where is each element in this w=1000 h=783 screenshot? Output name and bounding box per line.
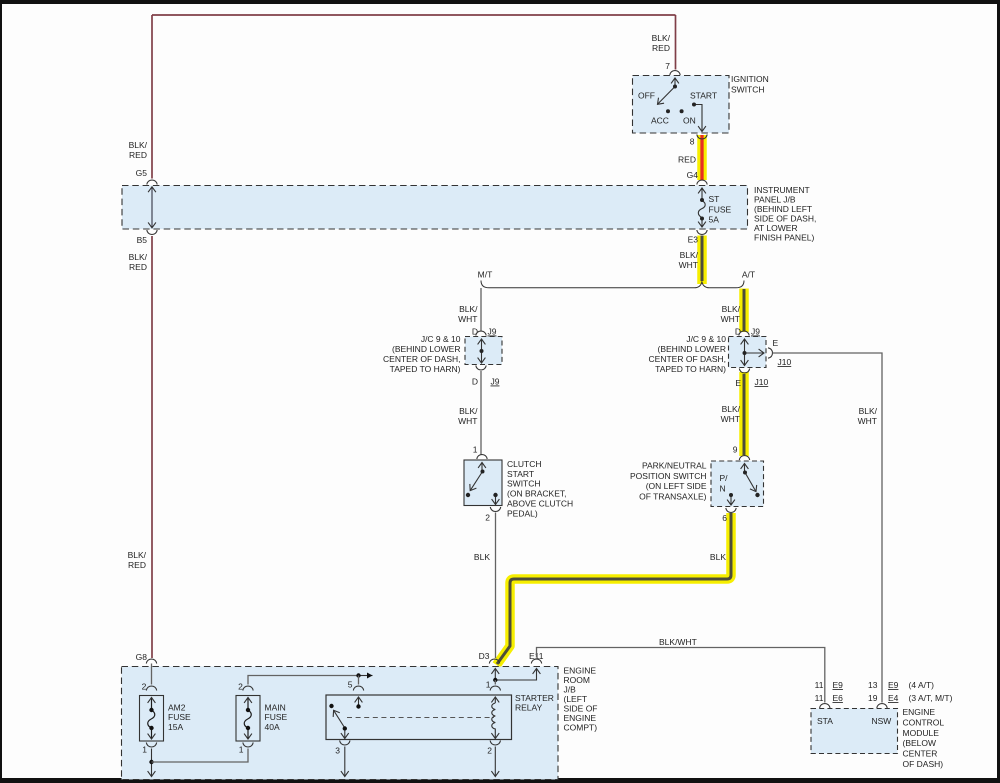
svg-text:WHT: WHT bbox=[458, 314, 477, 324]
svg-text:RELAY: RELAY bbox=[515, 703, 543, 713]
connector pin 3 arc bbox=[340, 741, 350, 746]
svg-text:40A: 40A bbox=[265, 722, 280, 732]
connector D arc (left J/C bottom) bbox=[476, 366, 486, 371]
svg-text:E9: E9 bbox=[888, 680, 899, 690]
svg-text:(BEHIND LEFT: (BEHIND LEFT bbox=[754, 204, 812, 214]
right J/C internal wire with arrows bbox=[745, 339, 765, 366]
wire BLK/WHT (E11 to STA) bbox=[537, 648, 825, 703]
wire junction down to relay pin 1 bbox=[494, 680, 496, 685]
wire BLK/WHT (left J/C to clutch switch) bbox=[480, 371, 482, 455]
starter relay box bbox=[326, 695, 512, 740]
connector relay pin 1 arc bbox=[490, 686, 500, 691]
P/N switch input arrow bbox=[744, 464, 746, 472]
svg-text:BLK/WHT: BLK/WHT bbox=[659, 637, 697, 647]
M/T - A/T option brace bbox=[481, 281, 744, 288]
ignition switch ACC contact dot bbox=[666, 109, 670, 113]
svg-text:J/B: J/B bbox=[564, 685, 577, 695]
svg-text:(LEFT: (LEFT bbox=[564, 694, 588, 704]
ignition switch ON contact dot bbox=[680, 109, 684, 113]
svg-text:INSTRUMENT: INSTRUMENT bbox=[754, 185, 810, 195]
frame bbox=[0, 0, 1000, 4]
connector pin 2 arc bbox=[490, 507, 500, 512]
svg-text:2: 2 bbox=[485, 513, 490, 523]
svg-text:5A: 5A bbox=[709, 215, 720, 225]
connector G8 arc bbox=[146, 659, 156, 664]
svg-text:(ON BRACKET,: (ON BRACKET, bbox=[507, 489, 567, 499]
svg-text:J9: J9 bbox=[751, 327, 760, 337]
fuse MAIN dots bbox=[246, 708, 250, 712]
svg-text:BLK/: BLK/ bbox=[459, 406, 478, 416]
wire junction to MAIN pin 1 bbox=[152, 749, 249, 763]
svg-text:BLK/: BLK/ bbox=[459, 304, 478, 314]
svg-text:(BELOW: (BELOW bbox=[903, 738, 937, 748]
junction dot AM2/MAIN bbox=[149, 760, 153, 764]
svg-text:ACC: ACC bbox=[651, 116, 669, 126]
connector MAIN pin 2 arc bbox=[243, 686, 253, 691]
connector pin 8 arc bbox=[697, 135, 707, 140]
svg-text:D3: D3 bbox=[479, 651, 490, 661]
connector AM2 pin 1 arc bbox=[146, 743, 156, 748]
connector pin 1 arc bbox=[477, 455, 487, 460]
svg-text:AT LOWER: AT LOWER bbox=[754, 223, 798, 233]
relay fixed contact dot bbox=[356, 704, 360, 708]
right J/C junction dot bbox=[743, 351, 747, 355]
svg-text:OFF: OFF bbox=[638, 91, 655, 101]
svg-text:D: D bbox=[472, 377, 478, 387]
svg-text:ST: ST bbox=[709, 194, 720, 204]
svg-text:1: 1 bbox=[239, 745, 244, 755]
svg-text:E: E bbox=[735, 378, 741, 388]
svg-text:(BEHIND LOWER: (BEHIND LOWER bbox=[392, 344, 460, 354]
connector pin 9 arc bbox=[739, 456, 749, 461]
clutch switch output arrow bbox=[495, 497, 497, 505]
svg-text:PEDAL): PEDAL) bbox=[507, 508, 538, 518]
svg-text:8: 8 bbox=[690, 137, 695, 147]
svg-text:J/C 9 & 10: J/C 9 & 10 bbox=[421, 334, 461, 344]
svg-text:WHT: WHT bbox=[458, 416, 477, 426]
svg-text:3: 3 bbox=[335, 746, 340, 756]
svg-text:ENGINE: ENGINE bbox=[564, 666, 597, 676]
svg-text:(ON LEFT SIDE: (ON LEFT SIDE bbox=[646, 481, 707, 491]
svg-text:ON: ON bbox=[683, 116, 696, 126]
wire BLK/WHT A/T branch highlighted (brace to right J/C) bbox=[739, 289, 749, 333]
svg-text:E4: E4 bbox=[888, 693, 899, 703]
connector G4 arc bbox=[697, 180, 707, 185]
connector pin 6 arc bbox=[726, 508, 736, 513]
svg-text:2: 2 bbox=[487, 746, 492, 756]
svg-text:D: D bbox=[735, 327, 741, 337]
svg-text:FUSE: FUSE bbox=[709, 204, 732, 214]
relay contact input arrow (pin 5) bbox=[358, 697, 360, 706]
svg-text:BLK/: BLK/ bbox=[128, 550, 147, 560]
J/C 9 & 10 left box bbox=[465, 337, 502, 365]
svg-text:13: 13 bbox=[868, 680, 878, 690]
svg-text:WHT: WHT bbox=[679, 260, 698, 270]
wire BLK/WHT highlighted (E3 to brace) bbox=[697, 236, 707, 285]
ignition switch box bbox=[633, 76, 730, 134]
wire G8 into AM2 fuse bbox=[151, 664, 153, 685]
relay pin 3 output arrow bbox=[344, 730, 346, 739]
svg-text:RED: RED bbox=[129, 150, 147, 160]
svg-text:G5: G5 bbox=[136, 168, 148, 178]
connector AM2 pin 2 arc bbox=[146, 686, 156, 691]
connector G5 arc bbox=[147, 180, 157, 185]
wire BLK/WHT M/T branch (brace to J/C) bbox=[480, 288, 482, 332]
wire BLK/RED right vertical to ignition pin 7 bbox=[675, 15, 677, 70]
wire RED highlighted (ignition to G4) bbox=[697, 135, 707, 180]
svg-text:(4 A/T): (4 A/T) bbox=[909, 680, 935, 690]
svg-text:B5: B5 bbox=[137, 235, 148, 245]
svg-text:E9: E9 bbox=[833, 680, 844, 690]
svg-text:SIDE OF: SIDE OF bbox=[564, 704, 598, 714]
svg-text:NSW: NSW bbox=[872, 716, 892, 726]
svg-text:STA: STA bbox=[817, 716, 833, 726]
wire pin 2 down bbox=[494, 747, 496, 777]
clutch start switch box bbox=[464, 460, 502, 506]
svg-text:1: 1 bbox=[142, 745, 147, 755]
relay pin 1 junction wire from D3/E11 bbox=[494, 669, 496, 681]
engine room J/B box bbox=[122, 667, 559, 780]
svg-text:CENTER OF DASH,: CENTER OF DASH, bbox=[383, 354, 460, 364]
ignition switch pivot dot bbox=[673, 85, 677, 89]
P/N switch output arrow bbox=[730, 497, 732, 506]
svg-text:STARTER: STARTER bbox=[515, 693, 554, 703]
svg-text:M/T: M/T bbox=[478, 270, 493, 280]
svg-text:WHT: WHT bbox=[721, 414, 740, 424]
svg-text:CLUTCH: CLUTCH bbox=[507, 459, 541, 469]
clutch switch arm bbox=[470, 472, 482, 491]
svg-text:BLK/: BLK/ bbox=[680, 250, 699, 260]
svg-text:BLK/: BLK/ bbox=[129, 140, 148, 150]
relay moving contact dot (top-left) bbox=[329, 704, 333, 708]
connector D3 arc bbox=[489, 659, 499, 664]
connector pin 2 arc (relay) bbox=[490, 741, 500, 746]
fuse MAIN box bbox=[236, 696, 260, 742]
connector pin 7 arc bbox=[670, 71, 680, 76]
wire BLK highlighted (P/N to D3) bbox=[497, 513, 732, 665]
relay switch arm bbox=[334, 710, 345, 728]
engine control module box bbox=[811, 709, 898, 754]
fuse AM2 box bbox=[140, 696, 164, 742]
svg-text:1: 1 bbox=[486, 680, 491, 690]
connector pin 5 arc bbox=[353, 686, 363, 691]
ignition switch START contact dot bbox=[692, 103, 696, 107]
ST FUSE element bbox=[698, 188, 705, 227]
svg-text:AM2: AM2 bbox=[168, 702, 186, 712]
svg-text:ENGINE: ENGINE bbox=[564, 713, 597, 723]
svg-text:2: 2 bbox=[238, 682, 243, 692]
svg-text:11: 11 bbox=[815, 680, 824, 690]
wire MAIN pin 2 riser to pin 5 junction bbox=[248, 676, 359, 685]
svg-text:PARK/NEUTRAL: PARK/NEUTRAL bbox=[642, 461, 707, 471]
svg-text:COMPT): COMPT) bbox=[564, 723, 598, 733]
svg-text:TAPED TO HARN): TAPED TO HARN) bbox=[390, 364, 461, 374]
svg-text:BLK/: BLK/ bbox=[652, 33, 671, 43]
svg-text:G8: G8 bbox=[136, 652, 148, 662]
fuse AM2 dots bbox=[149, 708, 153, 712]
svg-text:SWITCH: SWITCH bbox=[731, 85, 765, 95]
svg-text:1: 1 bbox=[473, 445, 478, 455]
ignition switch START contact to pin 8 bbox=[694, 105, 702, 132]
relay arm pivot dot bbox=[343, 726, 347, 730]
svg-text:MAIN: MAIN bbox=[265, 702, 286, 712]
wire BLK/RED top horizontal bbox=[152, 14, 676, 16]
svg-text:RED: RED bbox=[128, 560, 146, 570]
wire BLK/RED left vertical to G5 bbox=[151, 15, 153, 179]
svg-text:SWITCH: SWITCH bbox=[507, 479, 541, 489]
connector E arc (right J/C bottom) bbox=[739, 369, 749, 374]
svg-text:J9: J9 bbox=[491, 377, 500, 387]
svg-text:11: 11 bbox=[815, 693, 824, 703]
svg-text:BLK: BLK bbox=[710, 552, 726, 562]
connector NSW arc bbox=[877, 704, 887, 709]
svg-text:G4: G4 bbox=[687, 170, 699, 180]
wire BLK (clutch to D3) bbox=[495, 513, 497, 659]
svg-text:START: START bbox=[690, 91, 717, 101]
clutch switch pivot dot bbox=[481, 470, 485, 474]
svg-text:7: 7 bbox=[665, 61, 670, 71]
svg-text:J9: J9 bbox=[488, 327, 497, 337]
J/B pass-through wire G5-B5 with arrows bbox=[151, 187, 153, 228]
ignition switch rotor arm to OFF bbox=[658, 87, 676, 105]
svg-text:IGNITION: IGNITION bbox=[731, 74, 769, 84]
svg-text:(BEHIND LOWER: (BEHIND LOWER bbox=[658, 344, 726, 354]
ST FUSE dots bbox=[700, 198, 704, 202]
instrument panel J/B box bbox=[122, 186, 748, 230]
svg-text:RED: RED bbox=[129, 262, 147, 272]
svg-text:BLK/: BLK/ bbox=[129, 252, 148, 262]
svg-text:FUSE: FUSE bbox=[168, 712, 191, 722]
connector STA arc bbox=[820, 704, 830, 709]
svg-text:BLK/: BLK/ bbox=[859, 406, 878, 416]
svg-text:(3 A/T, M/T): (3 A/T, M/T) bbox=[909, 693, 953, 703]
relay coil bbox=[494, 697, 496, 703]
svg-text:2: 2 bbox=[142, 682, 147, 692]
wire pin 3 down bbox=[344, 747, 346, 777]
svg-text:J10: J10 bbox=[755, 377, 769, 387]
svg-text:CENTER OF DASH,: CENTER OF DASH, bbox=[649, 354, 726, 364]
clutch switch output contact dot bbox=[493, 493, 497, 497]
svg-text:FUSE: FUSE bbox=[265, 712, 288, 722]
connector D arc (left J/C top) bbox=[476, 331, 486, 336]
svg-text:SIDE OF DASH,: SIDE OF DASH, bbox=[754, 214, 816, 224]
ignition switch input arrow (pin 7) bbox=[674, 78, 676, 86]
clutch switch input arrow bbox=[481, 463, 483, 471]
svg-text:J/C 9 & 10: J/C 9 & 10 bbox=[686, 334, 726, 344]
fuse MAIN element bbox=[244, 698, 251, 740]
svg-text:OF TRANSAXLE): OF TRANSAXLE) bbox=[639, 491, 707, 501]
connector B5 arc bbox=[147, 230, 157, 235]
fuse AM2 element bbox=[148, 698, 155, 740]
svg-text:RED: RED bbox=[652, 43, 670, 53]
svg-text:A/T: A/T bbox=[742, 270, 755, 280]
clutch switch lower-left contact dot bbox=[466, 493, 470, 497]
wire junction down to pin 5 bbox=[358, 676, 360, 685]
J/C 9 & 10 right box bbox=[729, 337, 767, 368]
svg-text:5: 5 bbox=[348, 680, 353, 690]
wire BLK/RED B5 to G8 bbox=[151, 236, 153, 658]
svg-text:9: 9 bbox=[733, 445, 738, 455]
svg-text:TAPED TO HARN): TAPED TO HARN) bbox=[655, 364, 726, 374]
svg-text:P/: P/ bbox=[720, 473, 729, 483]
svg-text:CENTER: CENTER bbox=[903, 749, 938, 759]
svg-text:E: E bbox=[773, 338, 779, 348]
svg-text:BLK/: BLK/ bbox=[722, 304, 741, 314]
P/N switch arm end dot bbox=[755, 493, 759, 497]
svg-text:15A: 15A bbox=[168, 722, 183, 732]
svg-text:ENGINE: ENGINE bbox=[903, 707, 936, 717]
P/N switch output dot bbox=[729, 493, 733, 497]
wire pin-5 junction arrow right bbox=[359, 675, 373, 677]
wire BLK/WHT (J10 to NSW) bbox=[773, 353, 883, 703]
P/N switch pivot dot bbox=[743, 471, 747, 475]
svg-text:FINISH PANEL): FINISH PANEL) bbox=[754, 233, 814, 243]
svg-text:N: N bbox=[720, 484, 726, 494]
P/N switch arm bbox=[745, 473, 756, 492]
svg-text:CONTROL: CONTROL bbox=[903, 717, 945, 727]
svg-text:POSITION SWITCH: POSITION SWITCH bbox=[630, 471, 707, 481]
junction dot pin 1 bbox=[493, 678, 497, 682]
svg-text:RED: RED bbox=[678, 155, 696, 165]
relay linkage dashed line bbox=[347, 717, 494, 719]
svg-text:WHT: WHT bbox=[858, 416, 877, 426]
svg-text:OF DASH): OF DASH) bbox=[903, 759, 944, 769]
svg-text:J10: J10 bbox=[778, 357, 792, 367]
svg-text:BLK: BLK bbox=[474, 552, 490, 562]
connector E arc (right J/C side exit) bbox=[768, 348, 773, 358]
svg-text:D: D bbox=[472, 327, 478, 337]
svg-text:PANEL J/B: PANEL J/B bbox=[754, 195, 796, 205]
wire AM2 pin1 down with junction bbox=[151, 749, 153, 777]
svg-text:19: 19 bbox=[868, 693, 878, 703]
svg-text:6: 6 bbox=[722, 513, 727, 523]
wire BLK/WHT highlighted (right J/C to P/N switch) bbox=[739, 372, 749, 456]
left J/C internal wire with arrows bbox=[481, 339, 483, 363]
left J/C junction dot bbox=[480, 349, 484, 353]
junction dot pin 5 bbox=[356, 673, 360, 677]
svg-text:E6: E6 bbox=[833, 693, 844, 703]
svg-text:ROOM: ROOM bbox=[564, 675, 590, 685]
connector E11 arc bbox=[531, 659, 541, 664]
svg-text:WHT: WHT bbox=[721, 314, 740, 324]
connector MAIN pin 1 arc bbox=[243, 743, 253, 748]
connector D arc (right J/C top) bbox=[739, 331, 749, 336]
svg-text:BLK/: BLK/ bbox=[722, 404, 741, 414]
svg-text:ABOVE CLUTCH: ABOVE CLUTCH bbox=[507, 498, 573, 508]
svg-text:E3: E3 bbox=[688, 235, 699, 245]
svg-text:START: START bbox=[507, 469, 534, 479]
connector E3 arc bbox=[697, 230, 707, 235]
svg-text:MODULE: MODULE bbox=[903, 728, 940, 738]
park/neutral position switch box bbox=[711, 461, 764, 507]
